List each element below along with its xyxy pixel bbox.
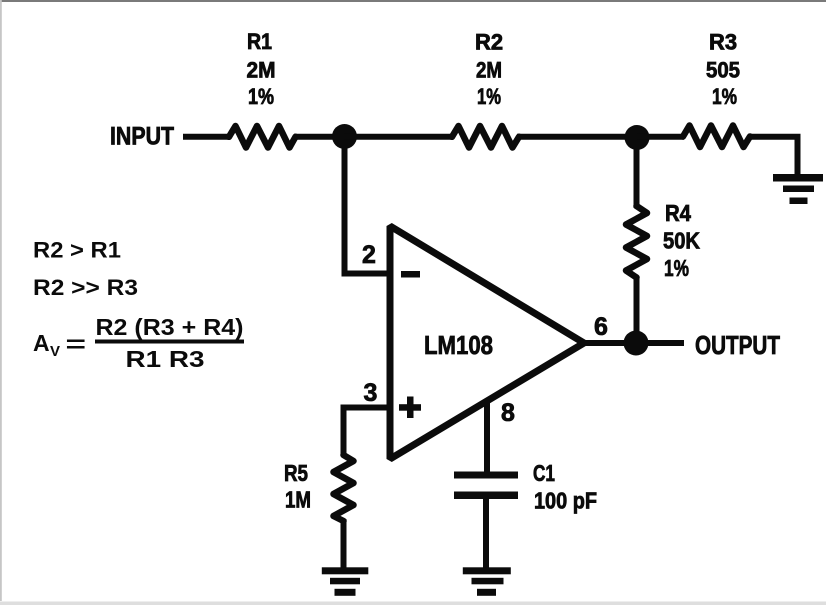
formula numerator R2 (R3 + R4) (96, 314, 244, 340)
node B junction dot (625, 125, 650, 150)
node A junction dot (332, 124, 357, 149)
label C1 value (533, 460, 597, 514)
svg-text:R5: R5 (284, 460, 308, 486)
svg-text:=: = (66, 331, 87, 357)
wire pin 3 to R5 (344, 408, 391, 457)
ground (under C1) (463, 567, 511, 596)
border frame left (0, 0, 2, 601)
pin 6 number (594, 313, 608, 341)
resistor R4 (626, 206, 647, 278)
svg-text:A: A (33, 330, 50, 356)
formula denominator R1 R3 (126, 346, 205, 372)
label R4 value (663, 200, 700, 281)
wire C1 to ground (483, 497, 489, 569)
resistor R5 (334, 455, 354, 521)
svg-text:50K: 50K (663, 228, 700, 254)
formula Av equals (33, 330, 86, 360)
svg-text:505: 505 (706, 58, 740, 83)
label INPUT (110, 123, 174, 151)
svg-text:1%: 1% (712, 84, 737, 109)
wire R4 to output node (634, 276, 640, 343)
wire node C to OUTPUT (647, 340, 684, 346)
svg-text:R4: R4 (665, 200, 691, 226)
ground (right, after R3) (773, 174, 823, 204)
svg-text:R2 (R3 + R4): R2 (R3 + R4) (96, 314, 244, 340)
svg-text:2M: 2M (247, 58, 276, 83)
capacitor C1 (454, 472, 518, 500)
resistor R2 (452, 126, 519, 148)
svg-text:3: 3 (364, 379, 378, 407)
label R3 value (706, 30, 740, 110)
wire R2 to node B (517, 134, 637, 140)
wire pin 8 to C1 (484, 400, 490, 472)
svg-text:1%: 1% (477, 84, 501, 109)
note R2 >> R3 (33, 275, 138, 300)
svg-text:C1: C1 (533, 460, 555, 486)
svg-text:INPUT: INPUT (110, 123, 174, 151)
svg-text:LM108: LM108 (424, 330, 493, 360)
border frame top (0, 0, 826, 2)
ground (under R5) (322, 567, 369, 596)
svg-text:2M: 2M (476, 58, 502, 83)
svg-text:R2: R2 (475, 30, 503, 55)
pin 2 number (362, 241, 376, 269)
svg-text:R2 >> R3: R2 >> R3 (33, 275, 138, 300)
wire INPUT lead (183, 134, 230, 140)
svg-text:R3: R3 (709, 30, 737, 55)
wire op-amp output to node C (584, 340, 625, 346)
svg-text:R1 R3: R1 R3 (126, 346, 205, 372)
svg-text:V: V (50, 343, 60, 360)
label LM108 (424, 330, 493, 360)
label R2 value (475, 30, 503, 110)
svg-text:R2 > R1: R2 > R1 (33, 238, 121, 263)
wire node A down to pin 2 (345, 140, 391, 274)
svg-text:R1: R1 (247, 29, 272, 54)
wire R3 to ground corner (748, 137, 798, 175)
wire node B to R3 (637, 134, 684, 140)
note R2 > R1 (33, 238, 121, 263)
svg-text:2: 2 (362, 241, 376, 269)
label R5 value (284, 460, 311, 513)
wire R1 to node A (294, 134, 345, 140)
wire node A to R2 (344, 134, 453, 140)
wire R5 to ground (341, 519, 347, 569)
svg-text:8: 8 (501, 399, 515, 427)
svg-text:6: 6 (594, 313, 608, 341)
svg-text:OUTPUT: OUTPUT (695, 330, 780, 360)
op-amp U1 triangle (390, 226, 584, 459)
resistor R3 (683, 126, 750, 148)
minus input symbol (401, 271, 420, 278)
label OUTPUT (695, 330, 780, 360)
svg-text:1%: 1% (664, 255, 689, 281)
node C output junction dot (624, 331, 649, 356)
formula fraction bar (95, 340, 244, 344)
plus input symbol (399, 397, 421, 419)
svg-text:1M: 1M (285, 487, 311, 513)
label R1 value (247, 29, 276, 109)
svg-text:1%: 1% (248, 84, 274, 109)
resistor R1 (229, 126, 296, 148)
pin 3 number (364, 379, 378, 407)
wire node B down to R4 (634, 148, 640, 208)
pin 8 number (501, 399, 515, 427)
border frame bottom (0, 602, 826, 605)
svg-text:100 pF: 100 pF (534, 488, 597, 514)
